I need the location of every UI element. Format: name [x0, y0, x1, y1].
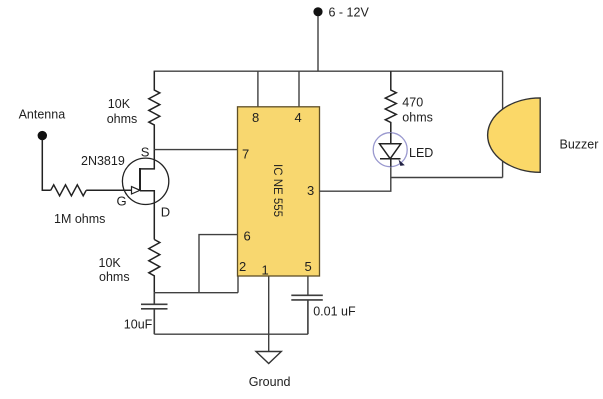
wire power drop: [317, 16, 319, 71]
svg-text:6: 6: [244, 229, 251, 244]
wire gate lead: [86, 189, 131, 191]
svg-text:4: 4: [295, 110, 302, 125]
wire pin2 stub: [237, 276, 239, 293]
wire pin5 drop: [307, 276, 309, 295]
wire pin7: [154, 149, 237, 151]
svg-text:10K: 10K: [99, 256, 122, 270]
svg-text:G: G: [117, 193, 127, 208]
svg-text:1M ohms: 1M ohms: [54, 212, 105, 226]
svg-text:Ground: Ground: [249, 375, 291, 389]
wire antenna lead: [42, 140, 50, 191]
ground: [256, 352, 281, 364]
svg-text:ohms: ohms: [402, 111, 433, 125]
wire pin6 loop: [199, 235, 238, 293]
svg-text:10K: 10K: [108, 97, 131, 111]
svg-text:2N3819: 2N3819: [81, 154, 125, 168]
wire pin3: [319, 167, 391, 192]
resistor R1 10K (top): [149, 71, 160, 149]
power node dot: [313, 7, 322, 16]
svg-text:3: 3: [307, 183, 314, 198]
svg-text:S: S: [141, 145, 150, 160]
svg-text:Antenna: Antenna: [19, 108, 66, 122]
svg-text:2: 2: [239, 259, 246, 274]
svg-text:5: 5: [305, 259, 312, 274]
svg-text:0.01 uF: 0.01 uF: [313, 305, 356, 319]
svg-text:7: 7: [242, 147, 249, 162]
LED D1: [373, 133, 407, 167]
svg-text:LED: LED: [409, 146, 433, 160]
svg-text:ohms: ohms: [107, 112, 138, 126]
svg-text:Buzzer: Buzzer: [560, 138, 599, 152]
svg-text:1: 1: [262, 263, 269, 278]
svg-text:D: D: [161, 205, 170, 220]
svg-text:8: 8: [252, 110, 259, 125]
svg-text:IC NE 555: IC NE 555: [271, 164, 283, 217]
svg-text:ohms: ohms: [99, 270, 130, 284]
wire bottom rail: [154, 333, 308, 335]
wire pin4 drop: [298, 71, 300, 107]
capacitor C2 0.01uF: [291, 295, 323, 334]
resistor R2 1M (gate): [51, 185, 86, 196]
resistor R3 10K (drain): [149, 240, 160, 293]
buzzer BZ1: [488, 98, 541, 172]
wire pin8 drop: [257, 71, 259, 107]
capacitor C1 10uF: [141, 293, 168, 335]
wire top rail: [154, 70, 503, 72]
IC U1 NE555 body: [238, 107, 320, 276]
antenna node dot: [38, 131, 47, 140]
resistor R4 470: [385, 71, 396, 133]
transistor Q1 2N3819: [122, 150, 168, 240]
svg-text:6 - 12V: 6 - 12V: [329, 6, 370, 20]
wire led to buzzer: [391, 177, 503, 179]
wire node row y292: [154, 292, 238, 294]
wire buzzer branch vertical (under buzzer): [502, 71, 504, 177]
wire pin1 to ground: [268, 276, 270, 352]
svg-text:10uF: 10uF: [124, 317, 153, 331]
svg-text:470: 470: [402, 96, 423, 110]
